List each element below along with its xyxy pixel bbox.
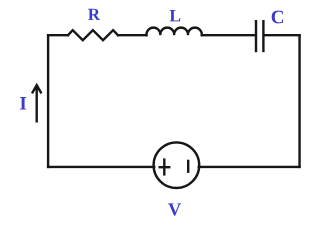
wire: left side	[47, 35, 49, 167]
label L	[170, 10, 181, 21]
wire: bottom-right segment	[199, 166, 300, 168]
wire: right side	[298, 35, 300, 167]
resistor R	[68, 30, 118, 40]
wire: inductor to capacitor	[202, 34, 255, 36]
inductor L	[146, 28, 201, 36]
label C	[272, 11, 283, 24]
label R	[88, 9, 100, 20]
label V	[168, 203, 181, 215]
voltage source V	[154, 142, 200, 188]
wire: capacitor to top-right corner	[265, 34, 300, 36]
label I	[20, 97, 26, 109]
wire: top-left segment	[48, 34, 68, 36]
current arrow I	[33, 85, 41, 121]
wire: resistor to inductor	[118, 34, 147, 36]
wire: bottom-left segment	[48, 166, 154, 168]
capacitor C	[256, 21, 263, 51]
